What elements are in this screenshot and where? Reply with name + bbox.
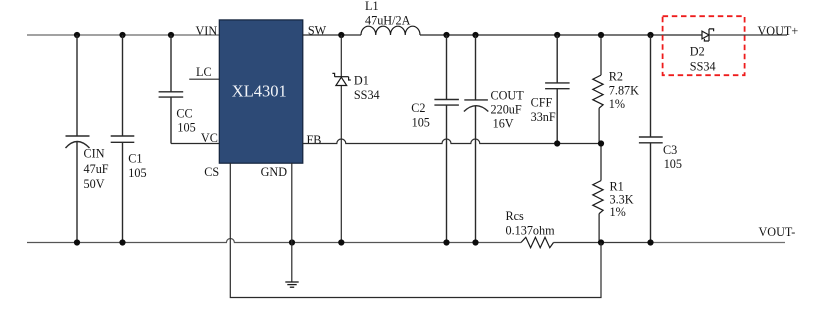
svg-text:1%: 1% [610, 205, 626, 219]
svg-text:1%: 1% [609, 97, 625, 111]
svg-text:CIN: CIN [84, 147, 105, 161]
svg-text:16V: 16V [493, 117, 514, 131]
wire VOUT+ [709, 34, 787, 36]
node FB-CFF [554, 140, 560, 146]
svg-text:COUT: COUT [491, 89, 525, 103]
capacitor CC [159, 35, 184, 144]
svg-text:33nF: 33nF [531, 110, 556, 124]
svg-text:VOUT-: VOUT- [759, 225, 796, 239]
node FB-R2-R1 [598, 140, 604, 146]
wire CS sense loop [230, 163, 601, 298]
svg-text:FB: FB [307, 133, 322, 147]
capacitor CIN [66, 35, 90, 243]
svg-text:C3: C3 [663, 143, 677, 157]
node GND-C1 [119, 239, 125, 245]
wire FB rail with hops [303, 139, 601, 144]
node GND-C3 [647, 239, 653, 245]
svg-text:SW: SW [308, 24, 327, 38]
svg-text:220uF: 220uF [491, 103, 522, 117]
wire bottom rail right [554, 242, 651, 244]
svg-text:XL4301: XL4301 [232, 82, 287, 101]
wire bottom rail with hop over CS [27, 239, 521, 243]
svg-text:VOUT+: VOUT+ [758, 24, 799, 38]
node SW-D1 [338, 32, 344, 38]
svg-text:CC: CC [176, 106, 192, 120]
red highlight box around D2 [663, 16, 745, 75]
inductor L1 [361, 26, 420, 35]
svg-text:105: 105 [412, 115, 430, 129]
capacitor COUT polarized [464, 35, 488, 243]
resistor Rcs [521, 237, 554, 247]
node OUT-C2 [443, 32, 449, 38]
svg-text:0.137ohm: 0.137ohm [506, 224, 556, 238]
node GND-D1 [338, 239, 344, 245]
svg-text:SS34: SS34 [690, 60, 716, 74]
wire output rail [420, 34, 702, 36]
svg-text:C1: C1 [128, 152, 142, 166]
svg-text:LC: LC [196, 65, 212, 79]
svg-text:VC: VC [201, 131, 218, 145]
node OUT-R2 [598, 32, 604, 38]
svg-text:50V: 50V [84, 177, 105, 191]
svg-text:C2: C2 [411, 101, 425, 115]
svg-text:105: 105 [177, 120, 195, 134]
node GND-pin [289, 239, 295, 245]
wire GND pin [291, 163, 293, 282]
node GND-C2 [443, 239, 449, 245]
svg-text:47uF: 47uF [84, 162, 109, 176]
capacitor C1 [111, 35, 135, 243]
capacitor C2 [434, 35, 459, 243]
svg-text:SS34: SS34 [354, 88, 380, 102]
op-amp U1 XL4301 body [219, 20, 302, 163]
node GND-CIN [74, 239, 80, 245]
wire bottom rail to VOUT- [651, 242, 786, 244]
svg-text:105: 105 [128, 166, 146, 180]
node VIN-CC [168, 32, 174, 38]
capacitor CFF [545, 35, 570, 144]
node GND-COUT [472, 239, 478, 245]
node OUT-COUT [472, 32, 478, 38]
node OUT-CFF [554, 32, 560, 38]
svg-text:Rcs: Rcs [506, 209, 525, 223]
svg-text:D2: D2 [690, 44, 705, 58]
svg-text:105: 105 [664, 157, 682, 171]
svg-text:R1: R1 [610, 179, 624, 193]
svg-text:R2: R2 [609, 70, 623, 84]
wire D1 branch [340, 35, 342, 243]
node VIN-CIN [74, 32, 80, 38]
svg-text:D1: D1 [354, 74, 369, 88]
diode D1 SS34 schottky [332, 73, 350, 85]
svg-text:GND: GND [261, 165, 288, 179]
wire LC stub [189, 78, 219, 80]
wire SW [303, 34, 361, 36]
svg-text:L1: L1 [365, 0, 379, 13]
resistor R2 [593, 35, 603, 144]
svg-text:CFF: CFF [531, 96, 553, 110]
wire VC [171, 143, 220, 145]
svg-text:CS: CS [204, 165, 219, 179]
svg-text:47uH/2A: 47uH/2A [365, 14, 411, 28]
svg-text:VIN: VIN [196, 24, 218, 38]
node VIN-C1 [119, 32, 125, 38]
ground [285, 282, 298, 287]
capacitor C3 [639, 35, 663, 243]
wire top input rail [27, 34, 219, 36]
diode D2 SS34 schottky [702, 29, 714, 41]
node GND-R1-CS [598, 239, 604, 245]
svg-text:7.87K: 7.87K [609, 83, 639, 97]
resistor R1 [593, 144, 603, 243]
node OUT-C3 [647, 32, 653, 38]
